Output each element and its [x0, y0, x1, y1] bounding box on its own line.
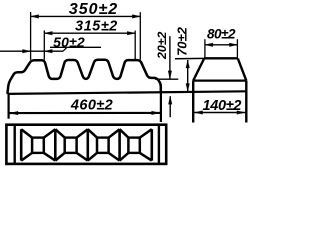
svg-text:460±2: 460±2 — [70, 98, 113, 114]
svg-text:50±2: 50±2 — [53, 34, 85, 50]
svg-text:80±2: 80±2 — [207, 27, 236, 42]
svg-text:140±2: 140±2 — [202, 98, 241, 114]
svg-text:20±2: 20±2 — [155, 32, 169, 60]
svg-text:315±2: 315±2 — [75, 18, 118, 34]
svg-text:350±2: 350±2 — [69, 1, 118, 18]
svg-text:70±2: 70±2 — [174, 26, 189, 56]
